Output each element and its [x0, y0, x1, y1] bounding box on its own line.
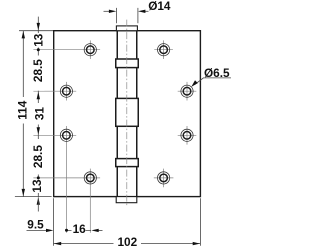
dim 31 top arrow: [37, 92, 40, 99]
screw hole B3: [181, 129, 193, 141]
dim 9.5 line and arrow: [27, 229, 48, 231]
barrel left edge: [116, 31, 118, 197]
screw hole A1 cross: [89, 40, 91, 59]
bottom extension line right edge: [199, 198, 201, 246]
screw hole B1: [158, 44, 170, 56]
dim 16 line: [67, 229, 92, 231]
screw hole A2 cross: [65, 82, 67, 101]
dim 114 line: [22, 31, 24, 197]
dim O14 right arrow: [145, 10, 149, 12]
left chain dim line: [37, 17, 39, 197]
screw hole A3: [60, 129, 72, 141]
dim 31 bottom arrow: [37, 127, 40, 134]
row1 centerline: [33, 49, 100, 51]
screw hole A2: [60, 85, 72, 97]
dim 16 dot: [65, 229, 68, 232]
hinge leaf outline: [54, 31, 201, 197]
screw hole B1 cross: [163, 40, 165, 59]
knuckle ring band 2 (middle): [116, 98, 139, 126]
svg-text:13: 13: [31, 33, 45, 47]
screw hole B4: [158, 172, 170, 184]
chain bottom arrow (13): [37, 197, 40, 204]
row4 centerline: [33, 177, 100, 179]
dim O6.5 leader: [195, 78, 204, 85]
barrel centerline: [126, 20, 128, 207]
knuckle bottom cap: [116, 197, 137, 203]
dim 102 left arrow: [54, 242, 61, 245]
knuckle top cap: [116, 26, 137, 31]
dim 114 bottom arrow: [22, 189, 25, 196]
chain dot row1: [37, 48, 40, 51]
dim O14 left arrow: [104, 10, 111, 12]
knuckle ring band 3: [116, 159, 139, 167]
svg-text:102: 102: [117, 235, 137, 249]
svg-text:114: 114: [16, 100, 30, 119]
row2 centerline: [33, 90, 76, 92]
chain label backings: [32, 33, 45, 48]
dim 114 top arrow: [22, 31, 25, 38]
svg-text:Ø14: Ø14: [148, 0, 171, 13]
chain dot row4: [37, 176, 40, 179]
screw hole B4 cross: [163, 169, 165, 188]
dim 102 line: [54, 243, 201, 245]
dim 102 right arrow: [193, 242, 200, 245]
screw hole B2: [181, 85, 193, 97]
dim 16 arrow: [98, 229, 102, 231]
screw hole A1: [84, 44, 96, 56]
knuckle ring band 1: [116, 59, 139, 68]
screw hole A3 cross and extension to 16-dim: [65, 126, 67, 233]
svg-text:28.5: 28.5: [31, 145, 45, 168]
dim O14 extension lines: [115, 8, 117, 23]
svg-text:9.5: 9.5: [27, 217, 44, 231]
dim 114 label backing: [17, 97, 30, 124]
chain top arrow (13): [37, 23, 40, 30]
svg-text:Ø6.5: Ø6.5: [204, 66, 230, 80]
screw hole B3 cross: [186, 126, 188, 145]
svg-text:13: 13: [30, 179, 44, 193]
svg-text:16: 16: [73, 222, 87, 236]
row3 centerline: [33, 134, 76, 136]
top edge extension line: [19, 30, 53, 32]
bottom edge extension line: [15, 196, 52, 198]
bottom extension line left edge: [53, 198, 55, 246]
screw hole A4 cross and extension to 16-dim: [89, 169, 91, 233]
screw hole A4: [84, 172, 96, 184]
svg-text:28.5: 28.5: [31, 59, 45, 82]
barrel right edge: [136, 31, 138, 197]
screw hole B2 cross: [186, 82, 188, 101]
svg-text:31: 31: [32, 107, 46, 121]
